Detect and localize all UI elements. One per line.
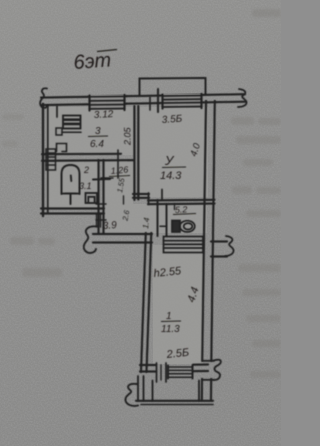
- svg-text:2: 2: [83, 165, 89, 175]
- svg-text:6эm: 6эm: [73, 49, 112, 74]
- svg-text:1.4: 1.4: [141, 217, 151, 230]
- svg-text:14.3: 14.3: [160, 170, 182, 182]
- svg-text:3.1: 3.1: [79, 181, 92, 191]
- svg-text:2.05: 2.05: [123, 126, 133, 146]
- svg-text:3.5Б: 3.5Б: [161, 114, 183, 126]
- svg-text:5.2: 5.2: [175, 204, 188, 215]
- svg-text:11.3: 11.3: [161, 324, 180, 335]
- svg-text:3.12: 3.12: [94, 109, 114, 121]
- svg-text:1: 1: [166, 311, 172, 322]
- svg-text:6.4: 6.4: [90, 139, 104, 150]
- svg-text:3.9: 3.9: [102, 220, 117, 232]
- svg-text:3: 3: [95, 126, 101, 137]
- svg-text:1.26: 1.26: [110, 165, 128, 176]
- svg-text:2.5Б: 2.5Б: [165, 347, 190, 361]
